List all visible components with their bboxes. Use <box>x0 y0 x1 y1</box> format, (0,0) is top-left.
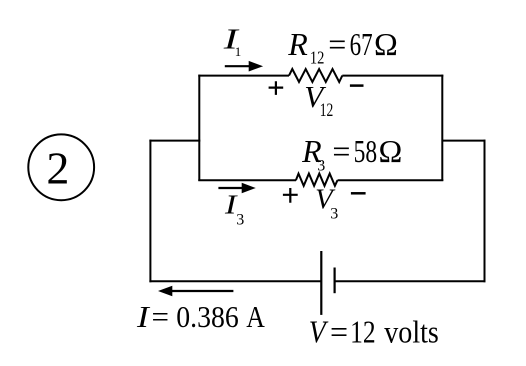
svg-text:1: 1 <box>235 44 242 59</box>
plus sign V3 <box>283 188 298 203</box>
svg-text:58: 58 <box>354 133 378 169</box>
label I = 0.386 A <box>136 299 266 334</box>
svg-text:12: 12 <box>350 313 376 349</box>
node circle label 2 <box>28 134 94 200</box>
label V12 <box>304 79 333 121</box>
label R12 = 67 ohm <box>287 26 397 68</box>
battery V long plate <box>320 251 322 315</box>
wire: right connector <box>442 140 485 142</box>
svg-text:12: 12 <box>310 47 325 67</box>
wire: top branch left segment <box>198 75 289 77</box>
wire: bottom left segment <box>149 280 321 282</box>
svg-text:=: = <box>152 299 169 334</box>
label I3 <box>224 190 245 229</box>
plus sign V12 <box>269 81 284 95</box>
svg-text:3: 3 <box>330 205 338 222</box>
svg-text:2: 2 <box>46 142 69 193</box>
current arrow I (bottom) <box>158 286 233 297</box>
wire: middle branch right segment <box>338 179 444 181</box>
svg-text:0.386: 0.386 <box>176 299 239 334</box>
wire: middle branch left segment <box>198 179 296 181</box>
label V3 <box>315 184 338 222</box>
current arrow I1 <box>225 61 263 72</box>
svg-text:Ω: Ω <box>374 26 398 62</box>
svg-text:volts: volts <box>384 313 439 349</box>
svg-text:12: 12 <box>320 100 334 121</box>
label I1 <box>222 24 241 59</box>
svg-text:I: I <box>136 299 151 334</box>
wire: bottom right segment <box>335 280 486 282</box>
label R3 = 58 ohm <box>301 133 402 174</box>
current arrow I3 <box>218 183 255 194</box>
wire: left stub of parallel section <box>198 75 200 181</box>
svg-text:A: A <box>246 299 265 334</box>
minus sign V12 <box>350 84 364 87</box>
svg-text:3: 3 <box>236 212 244 229</box>
svg-text:3: 3 <box>317 157 325 174</box>
resistor R12 <box>289 69 342 82</box>
svg-text:=: = <box>330 313 348 349</box>
wire: left connector <box>149 140 200 142</box>
svg-text:R: R <box>287 26 308 62</box>
wire: top branch right segment <box>342 75 443 77</box>
svg-text:V: V <box>309 313 329 349</box>
battery V short plate <box>334 268 336 294</box>
svg-text:=: = <box>332 133 350 169</box>
minus sign V3 <box>351 192 366 195</box>
svg-text:=: = <box>328 26 346 62</box>
wire: left outer vertical <box>149 140 151 283</box>
wire: right outer vertical <box>484 140 486 283</box>
wire: right stub of parallel section <box>441 75 443 181</box>
label V = 12 volts <box>309 313 439 349</box>
svg-text:Ω: Ω <box>379 133 403 169</box>
svg-text:67: 67 <box>350 26 373 62</box>
resistor R3 <box>296 174 338 186</box>
